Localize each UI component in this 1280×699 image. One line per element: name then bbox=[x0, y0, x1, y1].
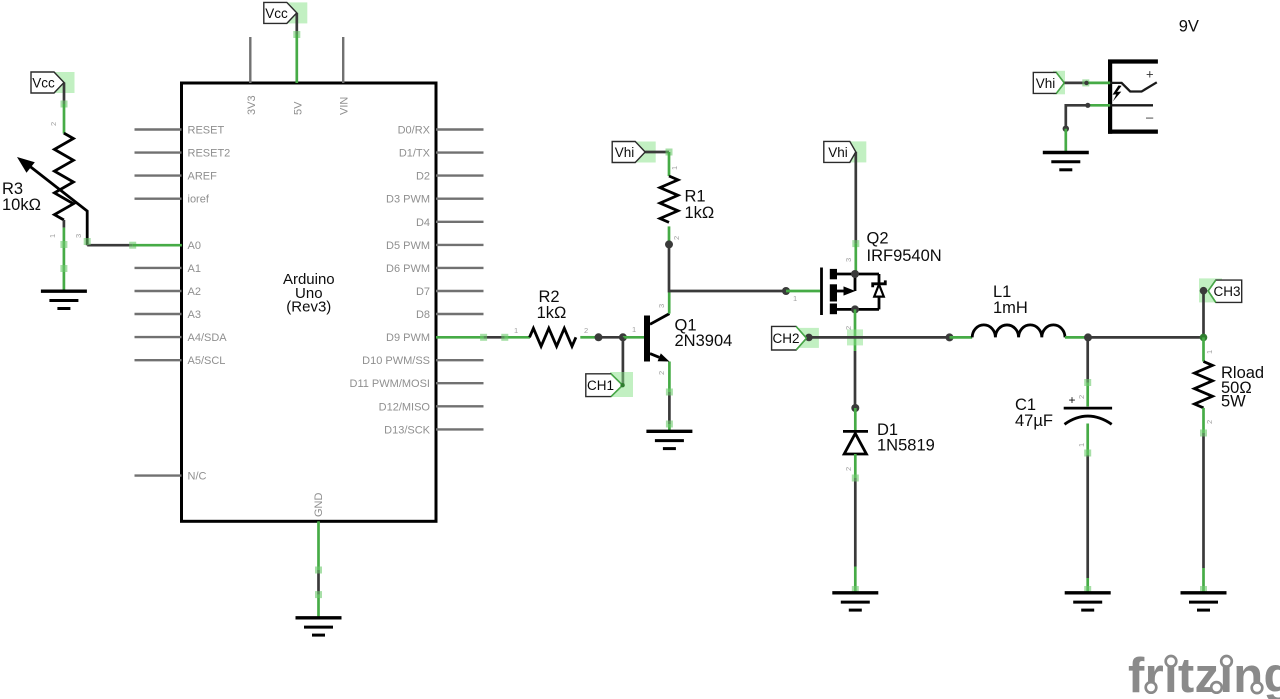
pin RESET2 bbox=[135, 148, 231, 160]
wire emitter (green) bbox=[668, 362, 671, 393]
ground (Q1) bbox=[646, 431, 692, 448]
junction (drain) bbox=[851, 305, 859, 313]
node CH2 highlight bbox=[799, 328, 819, 348]
pin D11 PWM/MOSI bbox=[350, 378, 484, 390]
wire endpoint bbox=[60, 241, 67, 248]
node crossing highlight bbox=[847, 329, 863, 345]
svg-text:2N3904: 2N3904 bbox=[675, 332, 733, 350]
wire L1 right (green) bbox=[1065, 336, 1085, 339]
svg-text:D8: D8 bbox=[416, 309, 430, 321]
wire to R2 (green) bbox=[505, 336, 530, 339]
svg-text:2: 2 bbox=[672, 236, 681, 240]
junction bbox=[595, 333, 603, 341]
svg-text:D9 PWM: D9 PWM bbox=[386, 332, 430, 344]
svg-text:10kΩ: 10kΩ bbox=[2, 196, 41, 214]
junction (CH2 tip) bbox=[805, 334, 813, 342]
ground (Arduino) bbox=[296, 618, 342, 635]
pin D2 bbox=[416, 171, 484, 183]
wire to ground (green) bbox=[1202, 568, 1205, 593]
wire to L1 (green) bbox=[950, 336, 973, 339]
net label Vhi (Q2) bbox=[824, 141, 856, 162]
power flag Vcc (pot) bbox=[31, 72, 64, 93]
diode D1 bbox=[843, 431, 868, 454]
svg-text:IRF9540N: IRF9540N bbox=[867, 247, 942, 265]
pin ioref bbox=[135, 194, 210, 206]
svg-text:A0: A0 bbox=[188, 240, 201, 252]
pin A5/SCL bbox=[135, 355, 226, 367]
wire D1 anode (green) bbox=[854, 454, 857, 478]
wire segment (dark) bbox=[484, 336, 505, 339]
wire C1 bottom (green) bbox=[1086, 424, 1089, 456]
wire pot pin1 down (dark) bbox=[63, 220, 66, 228]
mosfet Q2 body bbox=[822, 268, 886, 316]
wire to Q1 base (green) bbox=[623, 336, 645, 339]
wire pot pin2 (green) bbox=[63, 104, 66, 134]
wire to Q2 gate (green) bbox=[786, 290, 820, 293]
wire 5V pin (green) bbox=[295, 35, 298, 84]
label Q2 value bbox=[867, 229, 942, 264]
wire to plate (green) bbox=[1086, 383, 1089, 407]
battery J1 body bbox=[1108, 60, 1158, 134]
wire drain down (green) bbox=[854, 309, 857, 351]
svg-text:3: 3 bbox=[74, 234, 83, 238]
svg-text:Vhi: Vhi bbox=[828, 145, 848, 160]
node Vhi highlight bbox=[635, 142, 656, 163]
wire - corner (dark) bbox=[1066, 105, 1086, 128]
junction (CH1 tap) bbox=[619, 333, 627, 341]
wire segment (dark) bbox=[668, 392, 671, 424]
wire endpoint bbox=[852, 240, 859, 247]
wire segment (dark) bbox=[1202, 433, 1205, 568]
wire to source (green) bbox=[854, 244, 857, 274]
wire endpoint bbox=[1200, 586, 1207, 593]
wire endpoint bbox=[852, 475, 859, 482]
svg-text:D13/SCK: D13/SCK bbox=[384, 424, 431, 436]
svg-text:1kΩ: 1kΩ bbox=[685, 204, 715, 222]
transistor Q1 bbox=[644, 314, 669, 362]
wire endpoint bbox=[666, 421, 673, 428]
svg-text:–: – bbox=[1146, 110, 1154, 125]
svg-text:A4/SDA: A4/SDA bbox=[188, 332, 228, 344]
junction (C1 tap) bbox=[1084, 333, 1092, 341]
svg-text:Q2: Q2 bbox=[867, 229, 889, 247]
pin D6 PWM bbox=[386, 263, 484, 275]
wire endpoint bbox=[60, 265, 67, 272]
svg-text:5V: 5V bbox=[292, 101, 304, 115]
svg-text:+: + bbox=[1069, 393, 1076, 407]
wire endpoint bbox=[666, 389, 673, 396]
wire CH1 (dark) bbox=[622, 337, 625, 384]
svg-text:2: 2 bbox=[657, 371, 666, 375]
wire to A0 pin (green) bbox=[133, 244, 182, 247]
node CH3 highlight bbox=[1199, 278, 1222, 302]
wire endpoint bbox=[666, 149, 673, 156]
node Vhi highlight (battery) bbox=[1053, 71, 1065, 95]
svg-text:9V: 9V bbox=[1179, 18, 1199, 36]
pin AREF bbox=[135, 171, 218, 183]
svg-text:5W: 5W bbox=[1221, 393, 1246, 411]
svg-text:1: 1 bbox=[514, 326, 518, 335]
wire to Rload (green) bbox=[1202, 337, 1205, 361]
junction (D1) bbox=[851, 404, 859, 412]
svg-text:CH2: CH2 bbox=[772, 331, 799, 346]
IC body Arduino Uno bbox=[182, 83, 437, 521]
svg-text:ioref: ioref bbox=[188, 194, 210, 206]
svg-text:D2: D2 bbox=[416, 171, 430, 183]
svg-text:+: + bbox=[1146, 67, 1154, 82]
pin D10 PWM/SS bbox=[362, 355, 483, 367]
svg-text:Vhi: Vhi bbox=[615, 145, 635, 160]
label R2 value bbox=[537, 288, 567, 322]
wire to ground (green) bbox=[1086, 578, 1089, 593]
wire endpoint bbox=[129, 242, 136, 249]
wire battery - (green) bbox=[1086, 104, 1110, 107]
net label Vhi (battery) bbox=[1033, 72, 1064, 93]
wire endpoint bbox=[1084, 586, 1091, 593]
wire endpoint (wiper corner) bbox=[84, 238, 91, 245]
ground (pot) bbox=[41, 291, 87, 308]
wire to D1 (green) bbox=[854, 408, 857, 430]
wire CH2 run (dark) bbox=[809, 336, 950, 339]
node CH1 highlight bbox=[610, 372, 633, 397]
svg-text:A2: A2 bbox=[188, 286, 201, 298]
svg-text:2: 2 bbox=[844, 326, 853, 330]
svg-text:D0/RX: D0/RX bbox=[398, 125, 431, 137]
node Vcc highlight (pot) bbox=[54, 72, 75, 93]
junction bbox=[1063, 126, 1069, 132]
svg-text:1kΩ: 1kΩ bbox=[537, 304, 567, 322]
net label CH3 bbox=[1208, 280, 1242, 302]
pin 3V3 (top) bbox=[246, 37, 258, 115]
resistor R2 bbox=[530, 328, 576, 346]
svg-text:1N5819: 1N5819 bbox=[877, 437, 935, 455]
wire endpoint bbox=[315, 591, 322, 598]
wire Vhi flag to battery + (dark) bbox=[1064, 82, 1086, 85]
label Rload value bbox=[1221, 364, 1264, 411]
wire segment (dark) bbox=[599, 336, 623, 339]
svg-text:2: 2 bbox=[1205, 420, 1214, 424]
svg-text:1: 1 bbox=[48, 234, 57, 238]
wire segment (dark) bbox=[317, 570, 320, 595]
svg-text:3: 3 bbox=[844, 258, 853, 262]
label D1 value bbox=[877, 421, 935, 455]
pin D0/RX bbox=[398, 125, 484, 137]
wire to + (green) bbox=[1086, 82, 1110, 85]
wire CH3 down (dark) bbox=[1202, 291, 1205, 338]
svg-text:D4: D4 bbox=[416, 217, 430, 229]
pin D12/MISO bbox=[379, 401, 484, 413]
svg-text:D11 PWM/MOSI: D11 PWM/MOSI bbox=[350, 378, 430, 390]
svg-text:47µF: 47µF bbox=[1015, 412, 1053, 430]
wire segment (dark) bbox=[854, 478, 857, 567]
net label CH1 bbox=[586, 374, 625, 397]
svg-text:A3: A3 bbox=[188, 309, 201, 321]
svg-text:RESET2: RESET2 bbox=[188, 148, 231, 160]
wire to Rload column (dark) bbox=[1088, 336, 1204, 339]
svg-text:2: 2 bbox=[584, 326, 588, 335]
wire GND pin (green) bbox=[317, 521, 320, 570]
pin A4/SDA bbox=[135, 332, 228, 344]
svg-text:1: 1 bbox=[1077, 443, 1086, 447]
pin A1 bbox=[135, 263, 201, 275]
wire Rload bottom (green) bbox=[1202, 408, 1205, 433]
svg-text:VIN: VIN bbox=[339, 97, 351, 115]
pin RESET bbox=[135, 125, 225, 137]
junction (bendpoint) bbox=[1085, 103, 1090, 108]
label R1 value bbox=[685, 188, 715, 223]
resistor R1 bbox=[660, 176, 678, 222]
wire to ground (green) bbox=[1064, 129, 1067, 153]
svg-text:A5/SCL: A5/SCL bbox=[188, 355, 226, 367]
junction (source) bbox=[851, 270, 859, 278]
wire C1 top (dark) bbox=[1086, 337, 1089, 382]
wire endpoint bbox=[1200, 430, 1207, 437]
pin D3 PWM bbox=[386, 194, 484, 206]
wire endpoint bbox=[61, 101, 68, 108]
node Vhi highlight (Q2) bbox=[845, 141, 866, 162]
wire D9 PWM (green) bbox=[436, 336, 484, 339]
wire gate run (dark) bbox=[669, 290, 786, 293]
wire endpoint bbox=[480, 334, 487, 341]
svg-text:Vcc: Vcc bbox=[32, 76, 55, 91]
svg-text:1: 1 bbox=[670, 166, 679, 170]
ground (D1) bbox=[832, 593, 878, 610]
wire to ground (green) bbox=[854, 567, 857, 593]
net label Vhi (R1) bbox=[612, 142, 645, 163]
pin N/C bbox=[135, 471, 207, 483]
pin D7 bbox=[416, 286, 484, 298]
wire R2 to junction (green) bbox=[580, 336, 595, 339]
label C1 value bbox=[1015, 396, 1053, 430]
wire to ground (green) bbox=[668, 424, 671, 431]
svg-text:3V3: 3V3 bbox=[246, 95, 258, 115]
wire endpoint bbox=[501, 334, 508, 341]
svg-text:2: 2 bbox=[844, 467, 853, 471]
wire endpoint bbox=[852, 586, 859, 593]
wire endpoint bbox=[1084, 379, 1091, 386]
svg-text:CH1: CH1 bbox=[587, 378, 614, 393]
resistor Rload bbox=[1195, 362, 1213, 408]
pin VIN (top) bbox=[339, 37, 351, 115]
wire pot pin1 to ground (green) bbox=[63, 228, 66, 292]
svg-text:D3 PWM: D3 PWM bbox=[386, 194, 430, 206]
pin D5 PWM bbox=[386, 240, 484, 252]
svg-text:(Rev3): (Rev3) bbox=[286, 299, 331, 316]
svg-text:D10 PWM/SS: D10 PWM/SS bbox=[362, 355, 430, 367]
junction (R1/collector) bbox=[665, 240, 673, 248]
power flag Vcc (5V) bbox=[264, 2, 297, 23]
inductor L1 bbox=[972, 325, 1065, 338]
wire to ground (green) bbox=[317, 595, 320, 618]
capacitor C1 bbox=[1064, 393, 1112, 424]
wire Vhi flag corner (dark) bbox=[645, 151, 669, 154]
ground (battery) bbox=[1043, 153, 1089, 170]
pin A2 bbox=[135, 286, 201, 298]
potentiometer R3 body bbox=[17, 133, 87, 245]
wire pot wiper to A0 (dark) bbox=[87, 244, 133, 247]
svg-text:A1: A1 bbox=[188, 263, 201, 275]
pin D8 bbox=[416, 309, 484, 321]
junction (gate wire) bbox=[782, 287, 790, 295]
label Q1 value bbox=[675, 317, 733, 351]
wire junction down (dark) bbox=[668, 244, 671, 292]
wire 5V flag to pin (dark) bbox=[295, 13, 298, 35]
wire R1 to junction (green) bbox=[668, 226, 671, 241]
pin D13/SCK bbox=[384, 424, 483, 436]
net label CH2 bbox=[772, 326, 807, 350]
wire segment (dark) bbox=[854, 351, 857, 405]
pin D1/TX bbox=[399, 148, 484, 160]
svg-text:Vcc: Vcc bbox=[265, 6, 288, 21]
wire endpoint bbox=[315, 567, 322, 574]
svg-text:1: 1 bbox=[793, 294, 797, 303]
pin A3 bbox=[135, 309, 201, 321]
node Vcc highlight bbox=[286, 2, 307, 23]
junction (L1 left) bbox=[946, 333, 954, 341]
wire to R1 (green) bbox=[668, 152, 671, 176]
svg-text:D12/MISO: D12/MISO bbox=[379, 401, 431, 413]
svg-text:R1: R1 bbox=[685, 188, 706, 206]
svg-text:3: 3 bbox=[657, 304, 666, 308]
svg-text:GND: GND bbox=[313, 493, 325, 518]
svg-text:D7: D7 bbox=[416, 286, 430, 298]
svg-text:CH3: CH3 bbox=[1213, 284, 1240, 299]
ground (Rload) bbox=[1181, 593, 1227, 610]
svg-text:2: 2 bbox=[49, 122, 58, 126]
wire Vcc flag to pot (dark) bbox=[63, 83, 66, 105]
svg-text:2: 2 bbox=[1077, 395, 1086, 399]
svg-text:N/C: N/C bbox=[188, 471, 207, 483]
svg-text:AREF: AREF bbox=[188, 171, 218, 183]
svg-text:Vhi: Vhi bbox=[1036, 76, 1056, 91]
junction (CH3) bbox=[1200, 287, 1208, 295]
svg-text:D6 PWM: D6 PWM bbox=[386, 263, 430, 275]
wire endpoint bbox=[1082, 79, 1089, 86]
junction (bendpoint on + wire) bbox=[1084, 81, 1088, 85]
label R3 value bbox=[2, 180, 41, 214]
wire endpoint bbox=[293, 31, 300, 38]
label L1 value bbox=[993, 283, 1028, 317]
wire endpoint bbox=[1084, 450, 1091, 457]
svg-text:D1/TX: D1/TX bbox=[399, 148, 431, 160]
svg-text:1mH: 1mH bbox=[993, 299, 1028, 317]
wire Q1 collector (green) bbox=[668, 292, 671, 314]
wire segment (dark) bbox=[1086, 455, 1089, 578]
svg-text:1: 1 bbox=[1205, 350, 1214, 354]
pin D4 bbox=[416, 217, 484, 229]
wire Vhi to Q2 source (dark) bbox=[854, 152, 857, 244]
junction (Rload top) bbox=[1200, 334, 1208, 342]
svg-text:1: 1 bbox=[632, 325, 636, 334]
svg-text:RESET: RESET bbox=[188, 125, 225, 137]
svg-text:D5 PWM: D5 PWM bbox=[386, 240, 430, 252]
ground (C1) bbox=[1065, 593, 1111, 610]
